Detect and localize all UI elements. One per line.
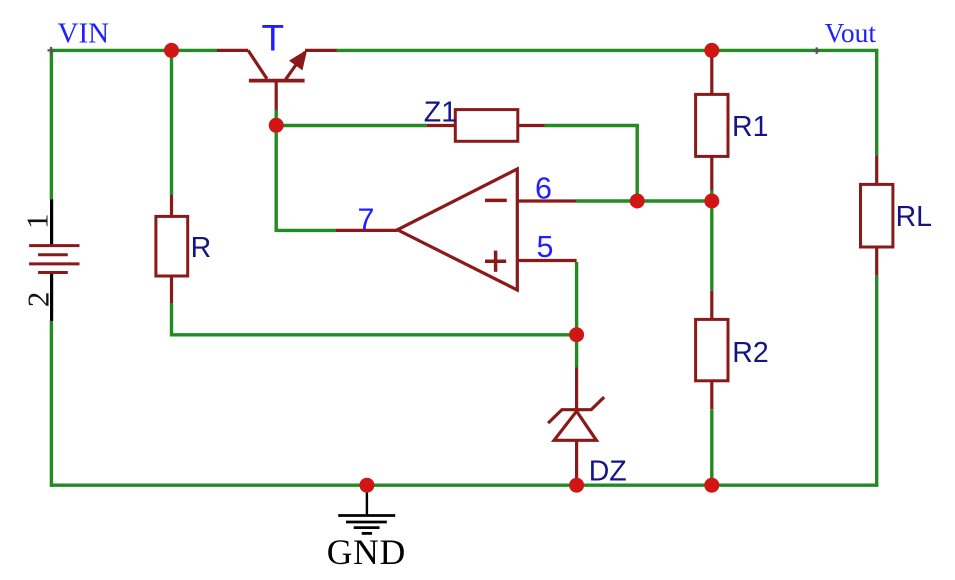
wire left rail upper	[50, 49, 53, 200]
battery B1 top lead	[50, 200, 53, 248]
svg-text:Z1: Z1	[424, 96, 457, 128]
svg-text:6: 6	[535, 172, 552, 206]
svg-text:DZ: DZ	[589, 455, 627, 487]
wire pin7 green segment	[275, 229, 337, 232]
svg-text:VIN: VIN	[58, 18, 110, 50]
op-amp U1 plus sign	[485, 251, 506, 272]
marker cross at VIN corner	[48, 47, 55, 54]
resistor R body	[156, 216, 188, 276]
svg-text:7: 7	[358, 203, 375, 237]
wire top bus VIN segment	[51, 49, 217, 52]
resistor Z1 right lead	[518, 124, 545, 127]
wire R top	[170, 50, 173, 195]
resistor Z1 body	[455, 110, 518, 142]
svg-text:RL: RL	[896, 201, 932, 233]
resistor R1 bottom lead	[710, 156, 713, 190]
wire R bottom to node5	[172, 303, 577, 335]
svg-text:R: R	[191, 232, 212, 264]
junction node 5 zener	[569, 327, 584, 342]
ground symbol bars	[338, 516, 395, 534]
resistor R1 body	[696, 94, 728, 156]
resistor Z1 left lead	[427, 124, 456, 127]
op-amp U1 pin5 lead	[517, 259, 576, 262]
wire base node to Z1	[276, 124, 427, 127]
resistor R2 body	[696, 319, 728, 380]
transistor T collector lead	[217, 49, 248, 52]
junction node Vout-R1	[704, 43, 719, 58]
wire base node vertical	[275, 109, 278, 231]
junction node VIN-R	[164, 43, 179, 58]
wire pin6 green segment	[576, 199, 712, 202]
svg-text:R2: R2	[732, 337, 768, 369]
wire Z1 to node6	[545, 126, 638, 202]
svg-text:5: 5	[537, 230, 554, 264]
op-amp U1 minus sign	[485, 199, 507, 203]
resistor RL top lead	[875, 155, 878, 184]
resistor RL bottom lead	[875, 247, 878, 276]
op-amp U1 pin7 output lead	[336, 229, 397, 232]
op-amp U1 body	[397, 169, 517, 290]
op-amp U1 pin6 lead	[517, 199, 576, 202]
zener diode DZ cathode bar	[548, 397, 604, 423]
zener diode DZ bottom lead	[575, 440, 578, 485]
battery B1 plates	[29, 246, 79, 273]
resistor R2 top lead	[710, 291, 713, 320]
wire R1-R2 middle	[710, 190, 713, 291]
wire R2 bottom	[710, 409, 713, 485]
transistor T emitter arrow	[290, 51, 307, 70]
battery B1 bottom lead	[50, 274, 53, 321]
junction node R2-ground	[704, 478, 719, 493]
junction node base-Z1	[269, 118, 284, 133]
resistor R2 bottom lead	[710, 381, 713, 409]
ground symbol stub	[366, 485, 368, 515]
svg-text:1: 1	[20, 214, 55, 230]
wire RL bottom	[875, 276, 878, 487]
transistor T base bar	[249, 79, 305, 83]
junction node 6 feedback	[630, 194, 645, 209]
wire left rail lower	[50, 321, 53, 487]
zener diode DZ anode triangle	[554, 411, 596, 440]
svg-text:R1: R1	[732, 111, 768, 143]
junction node ground tap	[359, 478, 374, 493]
junction node R1-R2	[704, 194, 719, 209]
resistor R top lead	[170, 195, 173, 216]
svg-text:GND: GND	[327, 532, 406, 572]
zener diode DZ top lead	[575, 368, 578, 410]
resistor R1 top lead	[710, 52, 713, 94]
resistor R bottom lead	[170, 276, 173, 303]
transistor T emitter diagonal	[286, 52, 305, 79]
wire pin5 vertical to node5	[575, 262, 578, 368]
svg-text:T: T	[261, 18, 284, 59]
wire top bus Vout segment	[336, 49, 877, 52]
wire RL top	[875, 49, 878, 156]
marker cross on Vout wire	[814, 47, 821, 54]
resistor RL body	[861, 184, 893, 247]
transistor T collector diagonal	[248, 50, 267, 78]
transistor T base lead	[275, 81, 278, 110]
wire bottom ground bus	[51, 484, 876, 487]
junction node DZ-ground	[569, 478, 584, 493]
svg-text:2: 2	[20, 292, 55, 308]
transistor T emitter lead	[305, 49, 337, 52]
svg-text:Vout: Vout	[825, 17, 877, 48]
